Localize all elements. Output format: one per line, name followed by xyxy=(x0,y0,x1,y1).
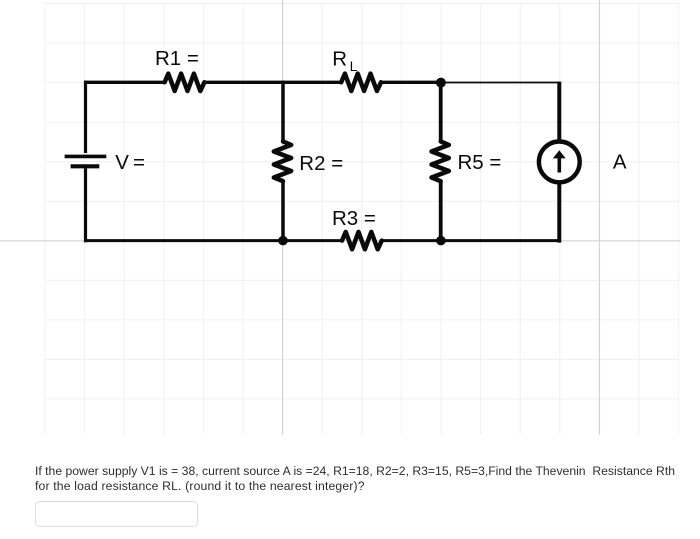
label V = xyxy=(115,151,145,174)
wire: bottom left segment from battery to R3 xyxy=(84,239,342,242)
label A xyxy=(613,151,627,174)
label RL xyxy=(332,47,357,74)
resistor RL xyxy=(341,74,381,91)
svg-text:A: A xyxy=(613,151,627,174)
resistor R3 xyxy=(342,232,382,249)
resistor R5 xyxy=(432,141,449,181)
wire: current source branch bottom vertical xyxy=(557,182,561,243)
current source A xyxy=(539,142,580,183)
wire: R5 branch top vertical xyxy=(439,83,443,142)
svg-text:R3 =: R3 = xyxy=(332,207,376,230)
label R3 = xyxy=(332,207,376,230)
label R2 = xyxy=(299,152,343,175)
label R5 = xyxy=(458,151,502,174)
svg-text:V: V xyxy=(115,151,129,174)
svg-text:=: = xyxy=(133,151,145,174)
resistor R2 xyxy=(274,141,291,181)
node: junction dot at bottom of R2 branch xyxy=(278,236,288,246)
svg-text:R2 =: R2 = xyxy=(299,152,343,175)
wire: left vertical above battery xyxy=(84,81,87,153)
wire: left vertical below battery xyxy=(84,168,87,242)
node: junction dot at top of R5 branch xyxy=(436,78,446,88)
svg-text:R5 =: R5 = xyxy=(458,151,502,174)
label R1 = xyxy=(155,47,199,70)
wire: R2 branch bottom vertical xyxy=(281,181,285,242)
wire: bottom segment from R3 to current source branch xyxy=(382,239,561,242)
wire: current source branch top vertical xyxy=(557,82,561,142)
wire: top segment from R1 to RL xyxy=(204,81,341,84)
answer input box xyxy=(35,501,198,527)
wire: top segment from RL to node at R5 branch xyxy=(381,81,441,84)
wire: R2 branch top vertical xyxy=(281,81,285,142)
svg-text:L: L xyxy=(350,58,358,74)
svg-text:R1 =: R1 = xyxy=(155,47,199,70)
wire: R5 branch bottom vertical xyxy=(439,181,443,242)
svg-text:R: R xyxy=(332,47,347,70)
battery V1 xyxy=(65,156,107,166)
wire: thin top segment from node to current source branch xyxy=(441,82,560,84)
resistor R1 xyxy=(165,74,205,91)
question text xyxy=(35,464,700,494)
wire: top left segment from battery to R1 xyxy=(84,81,165,84)
node: junction dot at bottom of R5 branch xyxy=(436,236,446,246)
background grid (decorative) xyxy=(45,4,679,435)
